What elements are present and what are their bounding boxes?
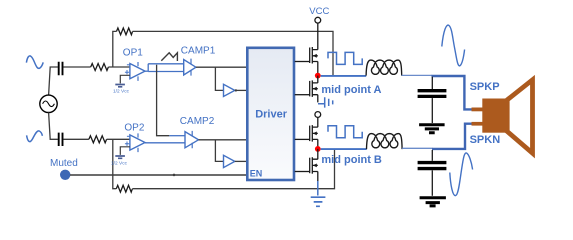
svg-text:OP1: OP1 [123, 48, 143, 59]
resistor R1 [91, 64, 109, 71]
wire CAMP2 upper input (blue) [169, 135, 185, 137]
gate wire Driver to Q4 [295, 171, 310, 173]
wire R2 to OP2 [107, 138, 130, 140]
square wave icon A [328, 52, 362, 64]
inductor L1 [366, 60, 402, 76]
wire OP2 output to CAMP2 [145, 142, 185, 144]
svg-text:1/2 Vcc: 1/2 Vcc [113, 88, 130, 94]
sine icon input 1 [26, 56, 43, 69]
sine icon input 2 [27, 131, 43, 142]
feedback wire bottom (mid point B to OP2 input) [113, 139, 335, 188]
burst icon at mid point A [318, 97, 333, 107]
transistor Q4 (low side B) [310, 149, 318, 181]
OP1 plus-input lead to 1/2VCC ground [120, 75, 130, 83]
wire OP1 output [145, 70, 148, 72]
sine icon output B [450, 153, 473, 196]
wire L1 to C3 node [402, 74, 432, 76]
comparator CAMP2 [185, 131, 199, 148]
capacitor C1 plates [59, 62, 63, 75]
wire VCC down to Q1 drain [317, 23, 319, 49]
transistor Q2 (low side A) [310, 76, 318, 103]
square wave icon B [328, 126, 362, 138]
open terminal node between legs [315, 112, 321, 118]
svg-text:mid point B: mid point B [321, 154, 382, 166]
speaker LS1 [472, 80, 533, 153]
wire C3 node to SPKP [432, 76, 472, 109]
VCC terminal circle [315, 17, 321, 23]
wire CAMP2 output to Driver [199, 139, 247, 141]
sine icon output A [442, 25, 465, 66]
op-amp OP1 [125, 62, 145, 81]
junction dot on Muted wire [173, 174, 176, 177]
wire branch CAMP1 to buffer 1 [215, 67, 223, 90]
wire Q1 source to mid point A [317, 62, 319, 76]
wire buffer 2 to Driver [235, 160, 246, 162]
inductor L2 [367, 134, 403, 150]
op-amp OP2 [125, 133, 145, 152]
Muted terminal dot [60, 170, 70, 180]
wire input 1 from cap to source [49, 67, 58, 95]
svg-text:SPKP: SPKP [470, 81, 500, 93]
ground power stage [311, 197, 326, 206]
feedback wire top (mid point A to OP1 input) [113, 31, 333, 75]
wire C2 to R2 [64, 138, 89, 140]
wire C4 node to SPKN [432, 124, 472, 149]
svg-text:Driver: Driver [255, 109, 288, 121]
hysteresis ramp icon [161, 53, 177, 61]
wire mid point B (blue) [321, 148, 367, 150]
svg-text:Muted: Muted [50, 158, 78, 169]
node mid point A (red) [315, 73, 321, 79]
ground at C4 [420, 198, 446, 206]
junction dot at buffer 1 output [235, 89, 237, 91]
wire C1 to R1 [64, 66, 91, 68]
cross wire OP1 output to CAMP2 input [157, 65, 170, 136]
comparator CAMP1 [184, 59, 196, 76]
wire Q4 source to ground (blue) [317, 181, 319, 196]
buffer U3 [224, 84, 235, 96]
svg-text:1/2 Vcc: 1/2 Vcc [111, 161, 128, 167]
capacitor C2 plates [59, 133, 63, 146]
OP2 plus-input lead to 1/2VCC ground [120, 147, 130, 155]
svg-text:CAMP2: CAMP2 [180, 116, 215, 127]
comparator CAMP1 tail [148, 64, 184, 72]
wire mid point A (blue) [321, 75, 367, 77]
resistor R2 [89, 136, 107, 143]
ground at C3 [419, 125, 445, 133]
capacitor C3 [418, 77, 447, 123]
wire branch CAMP2 to buffer 2 [215, 140, 223, 162]
svg-text:EN: EN [250, 168, 263, 178]
wire buffer 1 to Driver [235, 89, 246, 91]
svg-text:SPKN: SPKN [470, 134, 501, 146]
buffer U4 [224, 155, 235, 167]
svg-text:VCC: VCC [309, 6, 329, 17]
gate wire Driver to Q3 [295, 138, 310, 140]
gate wire Driver to Q1 [295, 61, 310, 63]
svg-text:CAMP1: CAMP1 [181, 46, 216, 57]
gate wire Driver to Q2 [295, 94, 310, 96]
transistor Q1 (high side A) [310, 47, 318, 64]
feedback resistor RF1 [117, 28, 133, 35]
wire CAMP1 output to Driver [196, 66, 246, 68]
capacitor C4 [418, 150, 447, 196]
AC source V1 [40, 95, 57, 112]
ground 1/2VCC at OP2 [115, 156, 125, 158]
wire L2 to C4 node [402, 147, 432, 149]
wire R1 to OP1 [108, 66, 129, 68]
wire source to cap 2 [49, 113, 58, 140]
wire Muted to EN [70, 174, 246, 176]
Driver block U1 [247, 48, 294, 180]
svg-text:OP2: OP2 [124, 123, 144, 134]
svg-text:mid point A: mid point A [321, 84, 381, 96]
transistor Q3 (high side B) [310, 117, 318, 148]
node mid point B (red) [315, 146, 321, 152]
ground 1/2VCC at OP1 [115, 85, 125, 87]
feedback resistor RF2 [116, 185, 132, 192]
